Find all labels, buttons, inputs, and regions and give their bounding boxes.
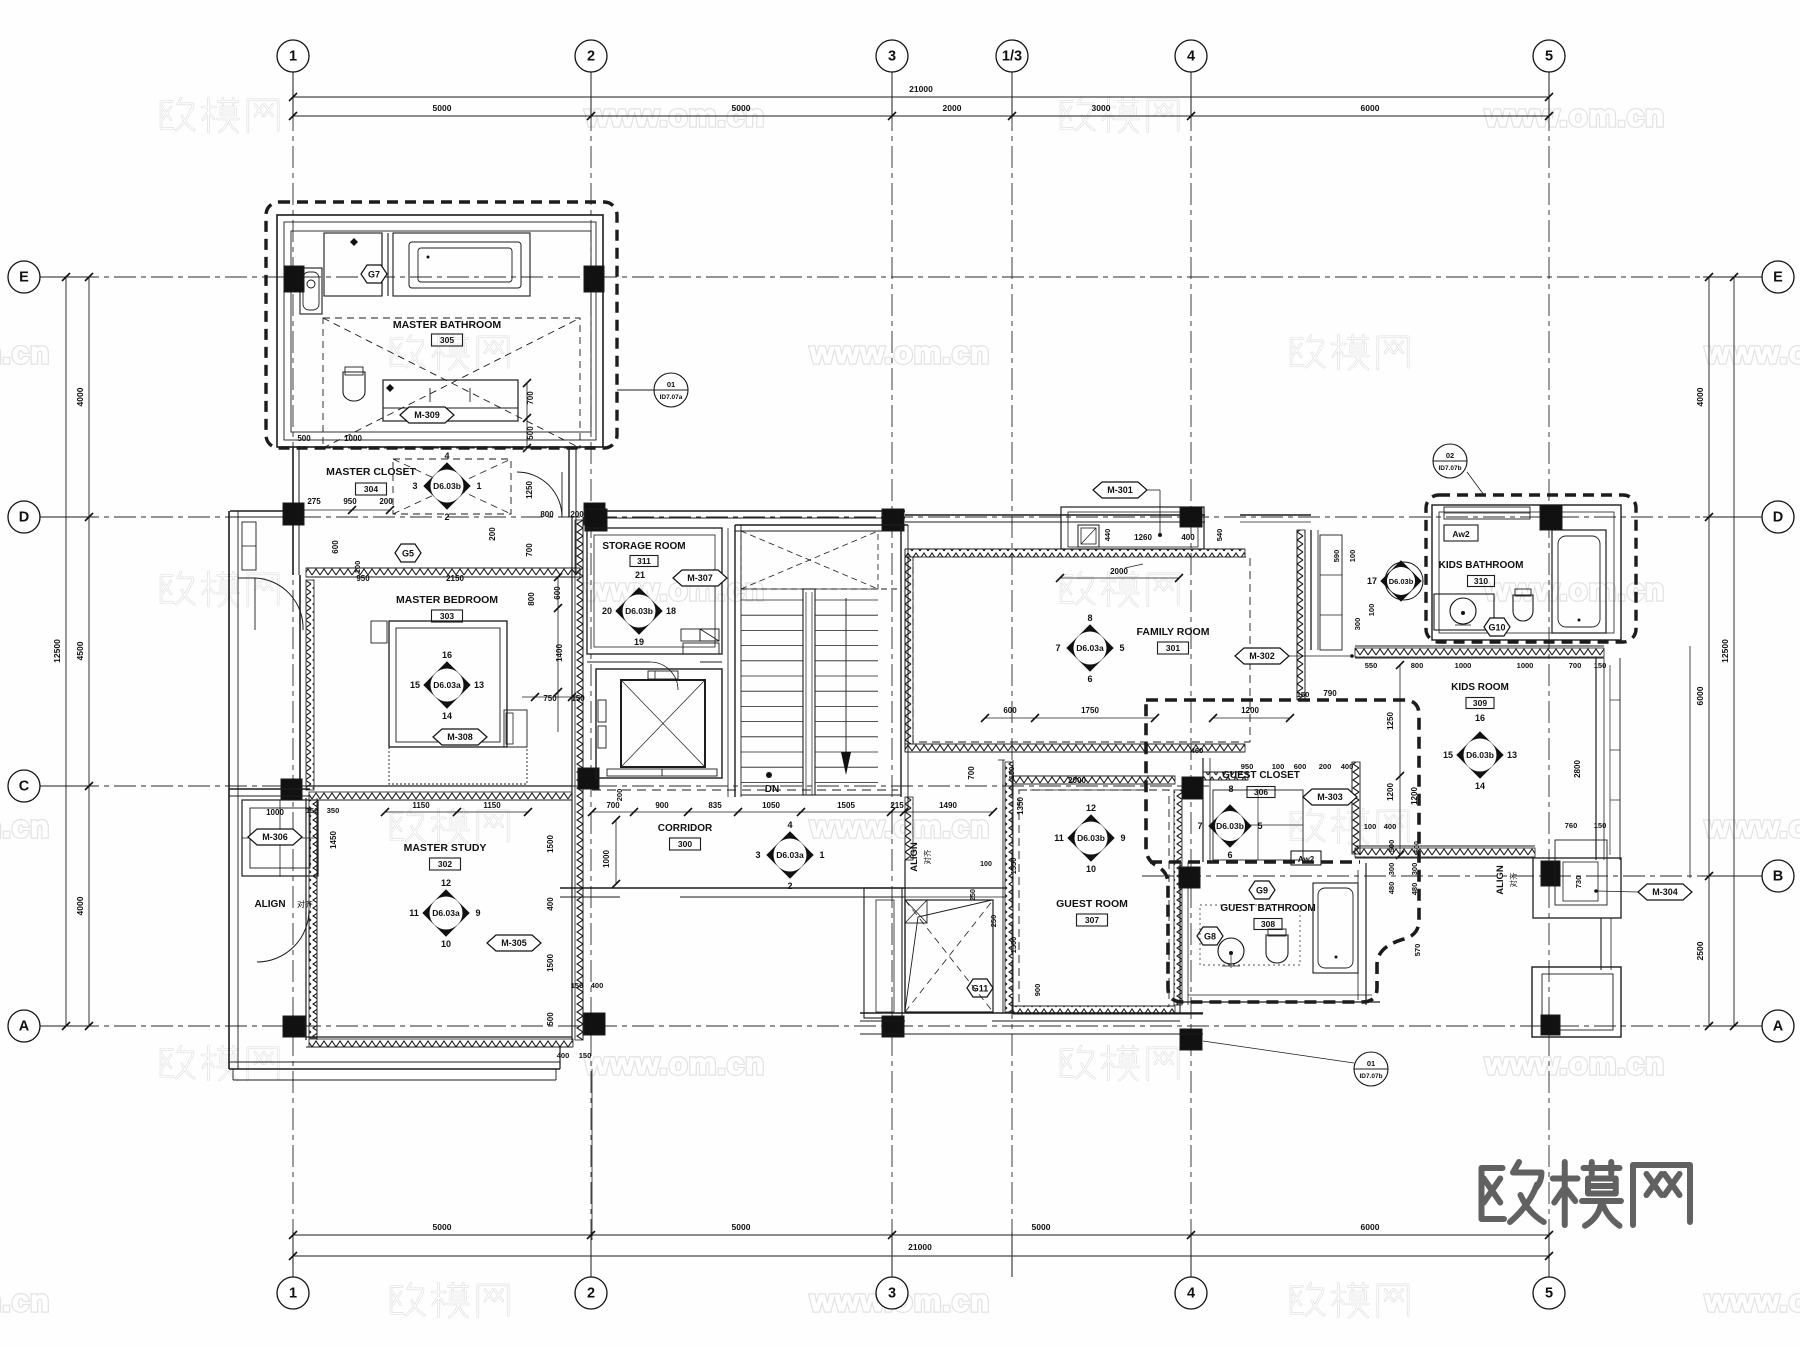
svg-text:14: 14 <box>1475 781 1485 791</box>
svg-text:200: 200 <box>379 497 393 506</box>
svg-text:310: 310 <box>1474 576 1488 586</box>
tag M-302 <box>1235 648 1289 664</box>
column bottom right <box>1541 1015 1560 1035</box>
svg-text:2: 2 <box>787 881 792 891</box>
door arc closet <box>517 472 562 517</box>
guest top dims <box>1030 789 1145 791</box>
svg-text:6000: 6000 <box>1361 1222 1380 1232</box>
svg-text:550: 550 <box>1365 661 1378 670</box>
diamond D6.03b closet <box>424 463 470 509</box>
tag M-305 <box>487 935 541 951</box>
kids tub <box>1552 530 1606 633</box>
svg-text:13: 13 <box>474 680 484 690</box>
svg-text:7: 7 <box>1197 821 1202 831</box>
family room top cabinet <box>1061 507 1204 549</box>
svg-text:100: 100 <box>1348 550 1357 563</box>
tag G9 <box>1249 881 1275 899</box>
bottom dimension chain <box>293 1234 1549 1236</box>
svg-text:18: 18 <box>666 606 676 616</box>
diamond D6.03a family <box>1067 625 1113 671</box>
tag G11 <box>967 979 993 997</box>
svg-text:A: A <box>19 1019 30 1035</box>
svg-text:12500: 12500 <box>52 639 62 663</box>
column master bath right <box>584 266 604 292</box>
svg-text:600: 600 <box>331 540 340 554</box>
guest ceiling dashed <box>1019 790 1169 1006</box>
Aw2 box kids <box>1444 525 1478 541</box>
column gc2 <box>1179 867 1200 888</box>
column D3 <box>585 509 607 531</box>
svg-text:1: 1 <box>476 481 481 491</box>
svg-text:www.om.cn: www.om.cn <box>0 335 50 370</box>
svg-text:150: 150 <box>571 981 584 990</box>
kids east window <box>1689 646 1691 878</box>
bedroom west wall <box>299 575 301 790</box>
svg-text:2: 2 <box>587 49 595 65</box>
svg-text:3: 3 <box>755 850 760 860</box>
svg-text:21: 21 <box>635 570 645 580</box>
study south facade <box>229 1068 560 1070</box>
svg-text:12: 12 <box>1086 803 1096 813</box>
M-306 closet <box>242 800 318 876</box>
storage fixtures <box>681 629 700 641</box>
svg-text:790: 790 <box>1323 689 1337 698</box>
D-row wall east stub <box>1240 514 1311 516</box>
svg-text:5000: 5000 <box>732 103 751 113</box>
svg-text:M-302: M-302 <box>1249 651 1275 661</box>
svg-text:FAMILY ROOM: FAMILY ROOM <box>1137 626 1210 638</box>
svg-text:480: 480 <box>1387 882 1396 895</box>
toilet master bath <box>343 372 365 401</box>
svg-text:1000: 1000 <box>1517 661 1534 670</box>
svg-text:D6.03a: D6.03a <box>432 908 460 918</box>
svg-text:3: 3 <box>888 1286 896 1302</box>
svg-text:1000: 1000 <box>602 850 611 868</box>
column B1 <box>1541 861 1560 886</box>
svg-text:400: 400 <box>1181 533 1195 542</box>
svg-text:600: 600 <box>1003 706 1017 715</box>
svg-text:13: 13 <box>1507 750 1517 760</box>
bedroom/study east wall hatch <box>571 517 573 1040</box>
svg-text:900: 900 <box>655 801 669 810</box>
svg-text:1500: 1500 <box>1009 937 1018 954</box>
svg-text:4000: 4000 <box>1695 387 1705 406</box>
family ceiling dashed <box>913 557 1250 742</box>
svg-text:308: 308 <box>1261 919 1275 929</box>
kids bathroom dashed boundary <box>1426 495 1636 642</box>
svg-text:570: 570 <box>1413 944 1422 957</box>
bedroom south wall <box>306 785 572 787</box>
guest room hatch bottom <box>1013 1006 1175 1014</box>
tag G7 <box>361 265 387 283</box>
svg-text:CORRIDOR: CORRIDOR <box>658 823 713 834</box>
D-row wall central <box>586 510 905 512</box>
shower enclosure <box>324 233 382 296</box>
svg-text:www.om.cn: www.om.cn <box>809 809 990 844</box>
svg-text:3000: 3000 <box>1092 103 1111 113</box>
svg-text:M-305: M-305 <box>501 938 527 948</box>
svg-text:950: 950 <box>343 497 357 506</box>
svg-text:100: 100 <box>353 561 362 574</box>
svg-text:5000: 5000 <box>1032 1222 1051 1232</box>
tag M-308 <box>433 729 487 745</box>
svg-text:2150: 2150 <box>446 574 464 583</box>
column C2 <box>578 768 599 789</box>
guest bath south wall <box>1180 1001 1380 1003</box>
svg-text:DN: DN <box>765 784 779 795</box>
guest bath east wall <box>1365 863 1367 1005</box>
svg-text:200: 200 <box>615 789 624 802</box>
svg-text:150: 150 <box>579 1051 592 1060</box>
guest tub <box>1313 883 1358 973</box>
kids room east wall <box>1595 658 1597 860</box>
guest bath dotted floor <box>1200 905 1300 965</box>
svg-text:250: 250 <box>970 889 977 901</box>
grid bubbles top <box>277 40 309 72</box>
door arc study <box>257 910 309 962</box>
diamond D6.03a study <box>423 890 469 936</box>
svg-text:400: 400 <box>591 981 604 990</box>
svg-text:www.om.cn: www.om.cn <box>0 1283 50 1318</box>
svg-text:309: 309 <box>1473 698 1487 708</box>
kids toilet <box>1513 595 1533 621</box>
svg-text:6000: 6000 <box>1695 686 1705 705</box>
elevator top fixture <box>648 671 678 679</box>
svg-text:10: 10 <box>441 939 451 949</box>
svg-text:MASTER STUDY: MASTER STUDY <box>404 842 487 854</box>
right dimension chain <box>1708 277 1710 1026</box>
svg-text:11: 11 <box>1054 833 1064 843</box>
svg-text:1400: 1400 <box>555 644 564 662</box>
svg-text:3: 3 <box>412 481 417 491</box>
svg-text:300: 300 <box>1387 863 1396 876</box>
svg-text:800: 800 <box>527 592 536 606</box>
column gc3 <box>1180 1029 1202 1050</box>
svg-text:1150: 1150 <box>483 801 501 810</box>
void X block <box>905 900 993 1012</box>
stair center stringer <box>803 589 815 795</box>
master bathroom dashed zone boundary <box>266 202 617 448</box>
svg-text:www.om.cn: www.om.cn <box>809 335 990 370</box>
svg-text:400: 400 <box>546 897 555 911</box>
column A1 <box>283 1016 305 1037</box>
duct shaft west of void <box>864 888 902 1018</box>
lobby walls <box>1310 530 1312 650</box>
column D4 <box>882 509 904 531</box>
left vanity sink <box>300 268 322 314</box>
svg-text:1000: 1000 <box>266 808 284 817</box>
tag 01 ID7.07b <box>1354 1052 1388 1086</box>
svg-text:9: 9 <box>475 908 480 918</box>
svg-text:1: 1 <box>289 49 297 65</box>
svg-text:2000: 2000 <box>1110 567 1128 576</box>
bedroom top wall hatch <box>306 568 580 577</box>
svg-text:700: 700 <box>967 766 976 780</box>
diamond D6.03b guest <box>1068 815 1114 861</box>
svg-text:01: 01 <box>667 380 675 389</box>
column D5 <box>1180 507 1202 527</box>
svg-text:G10: G10 <box>1488 622 1505 632</box>
grid bubbles left <box>8 261 40 293</box>
svg-text:M-308: M-308 <box>447 732 473 742</box>
svg-text:ALIGN: ALIGN <box>1495 865 1506 895</box>
diamond D6.03b storage <box>616 588 662 634</box>
svg-text:2000: 2000 <box>943 103 962 113</box>
svg-text:D6.03b: D6.03b <box>1216 821 1244 831</box>
kids room top wall hatch <box>1355 645 1604 647</box>
svg-text:760: 760 <box>1565 821 1578 830</box>
svg-text:D6.03a: D6.03a <box>776 850 804 860</box>
svg-text:1260: 1260 <box>1134 533 1152 542</box>
bathtub <box>393 233 530 296</box>
elevator shaft <box>596 669 722 778</box>
svg-text:GUEST CLOSET: GUEST CLOSET <box>1222 770 1300 781</box>
column master bath left <box>284 266 304 292</box>
tag 02 ID7.07b <box>1433 444 1467 478</box>
svg-text:6: 6 <box>1087 674 1092 684</box>
family room top wall <box>905 514 1205 516</box>
family room hatch top <box>905 549 1245 557</box>
svg-text:300: 300 <box>678 839 692 849</box>
svg-text:M-301: M-301 <box>1107 485 1133 495</box>
svg-text:E: E <box>19 270 29 286</box>
svg-text:100: 100 <box>980 861 992 868</box>
svg-text:1000: 1000 <box>1455 661 1472 670</box>
svg-text:16: 16 <box>1475 713 1485 723</box>
svg-text:1/3: 1/3 <box>1002 49 1022 65</box>
storage south wall <box>587 661 650 663</box>
corridor east hatch <box>905 797 913 860</box>
svg-text:540: 540 <box>1215 529 1224 542</box>
grid bubbles bottom <box>277 1277 309 1309</box>
svg-text:835: 835 <box>708 801 722 810</box>
kids room bottom hatch <box>1355 845 1535 847</box>
svg-text:16: 16 <box>442 650 452 660</box>
svg-text:215: 215 <box>890 801 904 810</box>
svg-text:1200: 1200 <box>1386 783 1395 801</box>
svg-text:100: 100 <box>1272 762 1285 771</box>
nightstand right <box>504 710 527 747</box>
kids dim line left <box>1399 665 1401 855</box>
watermark layer <box>161 98 278 132</box>
svg-text:02: 02 <box>1446 451 1454 460</box>
svg-text:150: 150 <box>1594 821 1607 830</box>
Aw2 box guest <box>1291 851 1321 865</box>
guest room hatch top <box>1013 776 1175 784</box>
study west wall hatch <box>305 798 307 1040</box>
stair outer walls <box>734 525 736 797</box>
column gc1 <box>1182 777 1203 799</box>
svg-text:E: E <box>1773 270 1783 286</box>
svg-text:www.om.cn: www.om.cn <box>1484 572 1665 607</box>
guest room hatch left <box>1002 760 1004 1013</box>
svg-text:3: 3 <box>888 49 896 65</box>
svg-text:D6.03b: D6.03b <box>433 481 461 491</box>
kids bath vanity <box>1434 594 1494 630</box>
tag M-309 <box>400 407 454 423</box>
svg-text:A: A <box>1773 1019 1784 1035</box>
bottom right room <box>1532 967 1621 1037</box>
svg-text:2: 2 <box>587 1286 595 1302</box>
diamond 17 <box>1385 562 1423 600</box>
svg-text:D6.03a: D6.03a <box>433 680 461 690</box>
svg-text:1050: 1050 <box>762 801 780 810</box>
elevator car <box>621 680 705 767</box>
svg-text:6: 6 <box>1227 850 1232 860</box>
svg-text:4000: 4000 <box>75 896 85 915</box>
svg-text:460: 460 <box>1191 746 1204 755</box>
svg-text:6000: 6000 <box>1361 103 1380 113</box>
svg-text:4: 4 <box>787 820 792 830</box>
west wing outer wall <box>228 511 230 1069</box>
closet dim line <box>300 509 390 511</box>
elevator rail left <box>598 700 606 722</box>
guest room hatch right <box>1174 790 1182 1005</box>
svg-text:www.om.cn: www.om.cn <box>0 809 50 844</box>
svg-text:950: 950 <box>356 574 370 583</box>
svg-text:800: 800 <box>1411 661 1424 670</box>
svg-text:01: 01 <box>1367 1059 1375 1068</box>
svg-text:G5: G5 <box>402 548 414 558</box>
svg-text:4: 4 <box>444 451 449 461</box>
svg-text:D6.03b: D6.03b <box>1466 750 1494 760</box>
kids bath window <box>1444 507 1530 519</box>
svg-text:306: 306 <box>1254 787 1268 797</box>
column C1 <box>281 779 302 800</box>
study bottom wall <box>306 1036 572 1038</box>
svg-text:5: 5 <box>1257 821 1262 831</box>
svg-text:500: 500 <box>546 1012 555 1026</box>
svg-text:G9: G9 <box>1256 885 1268 895</box>
svg-text:STORAGE ROOM: STORAGE ROOM <box>602 541 685 552</box>
svg-text:2500: 2500 <box>1695 941 1705 960</box>
svg-text:700: 700 <box>1569 661 1582 670</box>
svg-text:12500: 12500 <box>1720 639 1730 663</box>
svg-text:5000: 5000 <box>433 103 452 113</box>
diamond D6.03b kids <box>1457 732 1503 778</box>
study top dim <box>385 811 528 813</box>
svg-text:950: 950 <box>1241 762 1254 771</box>
tag 01 ID7.07a <box>617 389 654 391</box>
svg-text:www.om.cn: www.om.cn <box>1484 98 1665 133</box>
grid axes vertical <box>292 72 294 1277</box>
guest closet top wall hatch <box>1203 772 1248 780</box>
svg-text:12: 12 <box>441 878 451 888</box>
svg-text:G8: G8 <box>1204 931 1216 941</box>
guest sink <box>1218 938 1244 964</box>
svg-text:4: 4 <box>1187 1286 1195 1302</box>
svg-text:20: 20 <box>602 606 612 616</box>
svg-text:311: 311 <box>637 556 651 566</box>
svg-text:1505: 1505 <box>837 801 855 810</box>
svg-text:4500: 4500 <box>75 641 85 660</box>
svg-text:302: 302 <box>438 859 452 869</box>
stair arrow <box>845 598 847 758</box>
svg-text:7: 7 <box>1055 643 1060 653</box>
svg-text:G7: G7 <box>368 269 380 279</box>
svg-text:www.om.cn: www.om.cn <box>1704 1283 1800 1318</box>
svg-text:2000: 2000 <box>1068 776 1086 785</box>
column A3 <box>882 1016 904 1037</box>
svg-text:10: 10 <box>1086 864 1096 874</box>
guest-kids divider wall hatch <box>1352 762 1360 854</box>
svg-text:MASTER BEDROOM: MASTER BEDROOM <box>396 594 498 606</box>
svg-text:305: 305 <box>440 335 454 345</box>
svg-text:D: D <box>1773 510 1783 526</box>
bathroom ceiling zone X <box>323 318 580 448</box>
watermark big logo <box>1482 1162 1691 1226</box>
family mid dims <box>985 717 1155 719</box>
svg-text:21000: 21000 <box>908 1242 932 1252</box>
tag G10 <box>1484 618 1510 636</box>
tag M-306 <box>248 829 302 845</box>
svg-text:300: 300 <box>1353 618 1362 631</box>
corridor 1490 dim <box>904 811 993 813</box>
storage room walls <box>587 528 722 654</box>
svg-text:GUEST BATHROOM: GUEST BATHROOM <box>1220 903 1315 914</box>
svg-text:275: 275 <box>307 497 321 506</box>
vanity counter M-309 <box>383 380 518 421</box>
svg-text:150: 150 <box>1297 690 1310 699</box>
svg-text:8: 8 <box>1228 784 1233 794</box>
svg-text:Aw2: Aw2 <box>1452 529 1470 539</box>
svg-text:5: 5 <box>1545 49 1553 65</box>
closet east wall <box>568 447 570 517</box>
stair top landing X <box>741 531 878 589</box>
elevator door <box>607 769 717 776</box>
svg-text:1200: 1200 <box>1241 706 1259 715</box>
svg-text:M-309: M-309 <box>414 410 440 420</box>
svg-text:M-303: M-303 <box>1317 792 1343 802</box>
tag M-303 <box>1303 789 1357 805</box>
guest zone dashed boundary <box>1146 700 1419 1002</box>
master bathroom outer wall <box>277 215 603 447</box>
stair treads <box>741 599 803 601</box>
svg-text:B: B <box>1773 869 1783 885</box>
svg-text:600: 600 <box>553 586 562 600</box>
svg-text:301: 301 <box>1166 643 1180 653</box>
svg-text:700: 700 <box>606 801 620 810</box>
svg-text:11: 11 <box>409 908 419 918</box>
svg-text:350: 350 <box>327 806 340 815</box>
svg-text:ID7.07b: ID7.07b <box>1359 1073 1382 1080</box>
svg-text:400: 400 <box>1341 762 1354 771</box>
svg-text:www.om.cn: www.om.cn <box>584 1046 765 1081</box>
svg-text:307: 307 <box>1085 915 1099 925</box>
bed <box>389 621 507 747</box>
stair DN label <box>766 772 772 778</box>
svg-text:1350: 1350 <box>1016 797 1025 815</box>
svg-text:1150: 1150 <box>412 801 430 810</box>
svg-text:5000: 5000 <box>433 1222 452 1232</box>
south facade guest <box>860 1012 1203 1014</box>
svg-text:600: 600 <box>1294 762 1307 771</box>
svg-text:ID7.07b: ID7.07b <box>1438 465 1461 472</box>
guest closet wall <box>1202 758 1204 862</box>
east connecting wall <box>1600 918 1602 970</box>
svg-text:150: 150 <box>1007 767 1016 780</box>
svg-text:1500: 1500 <box>546 954 555 972</box>
svg-text:900: 900 <box>1033 984 1042 997</box>
svg-text:2800: 2800 <box>1573 760 1582 778</box>
svg-text:15: 15 <box>1443 750 1453 760</box>
diamond D6.03a bedroom <box>424 662 470 708</box>
nightstand left <box>371 621 387 643</box>
svg-text:303: 303 <box>440 611 454 621</box>
column A2 <box>584 1013 605 1035</box>
svg-text:D6.03b: D6.03b <box>1077 833 1105 843</box>
closet ceiling zone <box>393 459 511 514</box>
